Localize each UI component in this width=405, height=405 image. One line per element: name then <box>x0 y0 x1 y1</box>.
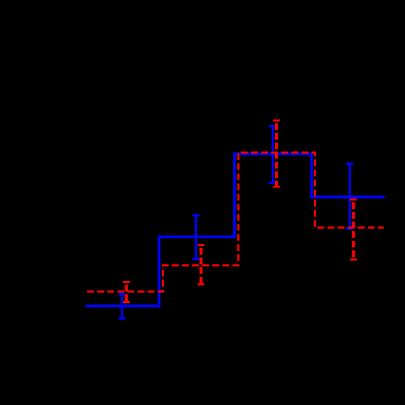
blue error bar bin3 shaft <box>272 126 274 183</box>
red error bar bin1 caps <box>123 281 130 283</box>
blue error bar bin3 caps <box>269 125 276 127</box>
red error bar bin3 shaft (dashed) <box>275 121 278 187</box>
blue error bar bin1 shaft <box>121 294 123 318</box>
red error bar bin1 shaft (dashed) <box>125 282 128 302</box>
red error bar bin3 caps <box>273 119 280 121</box>
red dashed step histogram (series 2, steps-mid) <box>87 153 384 292</box>
red error bar bin4 caps <box>350 198 357 200</box>
red error bar bin4 shaft (dashed) <box>352 200 355 260</box>
blue error bar bin4 caps <box>346 163 353 165</box>
blue step histogram (series 1, steps-mid) <box>86 154 385 306</box>
red error bar bin2 shaft (dashed) <box>200 245 203 284</box>
blue error bar bin4 shaft <box>349 164 351 229</box>
blue error bar bin1 caps <box>118 293 125 295</box>
blue error bar bin2 caps <box>192 214 199 216</box>
red error bar bin2 caps <box>198 244 205 246</box>
blue error bar bin2 shaft <box>195 215 197 259</box>
